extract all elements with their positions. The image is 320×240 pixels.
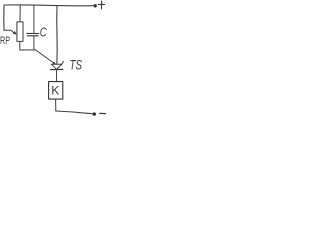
wire capacitor top lead (33, 6, 35, 34)
wire right rail anode lead (56, 6, 58, 64)
wire bottom rail (56, 111, 93, 114)
wire top rail (4, 4, 93, 7)
svg-text:C: C (40, 25, 47, 40)
wire RP wiper arm with arrowhead (4, 30, 15, 33)
wire cathode lead (56, 70, 58, 82)
svg-text:RP: RP (0, 35, 10, 47)
wire RP top lead (19, 5, 21, 22)
plus terminal label (98, 1, 104, 9)
resistor RP body (17, 22, 23, 42)
minus terminal label (100, 112, 106, 114)
relay coil K box (49, 82, 63, 100)
node top-right junction dot (94, 4, 97, 7)
svg-text:TS: TS (70, 57, 83, 73)
thyristor TS triangle (52, 61, 64, 64)
svg-text:K: K (51, 84, 59, 98)
wire RP bottom lead (19, 41, 21, 50)
wire gate diagonal to thyristor (36, 50, 55, 64)
node bottom-right junction dot (93, 112, 96, 115)
wire K bottom lead (55, 99, 57, 111)
capacitor C top plate (27, 32, 39, 34)
thyristor TS cathode bar (51, 68, 63, 70)
wire bottom junction run (20, 49, 36, 51)
capacitor C bottom plate (27, 35, 38, 37)
wire left rail (3, 5, 5, 30)
wire capacitor bottom lead (33, 36, 35, 50)
